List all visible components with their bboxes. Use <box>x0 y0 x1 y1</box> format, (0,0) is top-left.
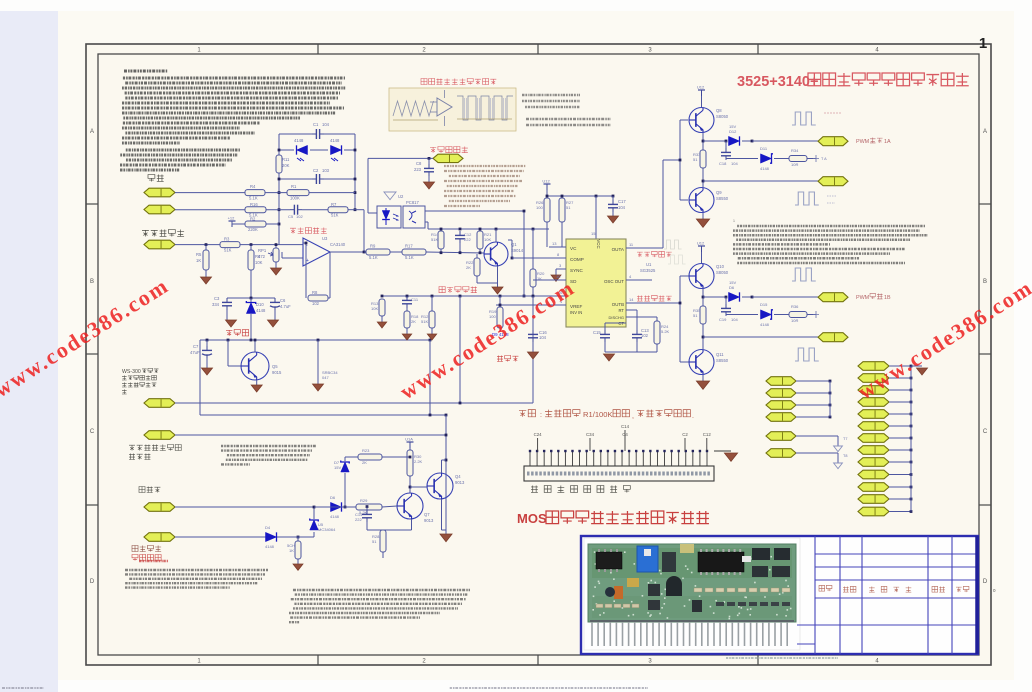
svg-text:D6: D6 <box>729 285 735 290</box>
resistor R6 <box>250 245 252 250</box>
PCB green board <box>588 544 796 622</box>
net label pill <box>766 413 796 422</box>
rail y229 <box>428 228 549 230</box>
net label pill <box>858 434 889 443</box>
svg-text:U12: U12 <box>697 85 705 90</box>
wire bus y415 <box>200 414 446 416</box>
IC pin wires right <box>626 247 663 249</box>
resistor R12 <box>431 296 433 311</box>
net label pill <box>858 398 889 407</box>
net label pill <box>858 446 889 455</box>
svg-text:1: 1 <box>733 219 735 223</box>
svg-text:.: . <box>692 413 694 420</box>
ground R12 <box>427 334 436 340</box>
ground RP1 <box>271 268 282 275</box>
ground Q5 emitter <box>256 380 258 385</box>
potentiometer RP1 <box>273 248 279 262</box>
svg-text:U1: U1 <box>646 262 652 267</box>
ground Q5 <box>251 385 262 392</box>
label output1 red <box>637 251 672 257</box>
svg-text:1B: 1B <box>884 295 891 301</box>
right note text block <box>737 225 925 228</box>
wire row2 <box>175 209 245 211</box>
svg-text:C2: C2 <box>313 168 319 173</box>
svg-text:S8550: S8550 <box>716 358 729 363</box>
net label pill <box>858 458 889 467</box>
wire OSC stub <box>651 279 653 281</box>
svg-text:102: 102 <box>296 214 303 219</box>
svg-text:PWM: PWM <box>856 295 870 301</box>
svg-text:R11: R11 <box>282 157 290 162</box>
diode D2 <box>331 145 342 154</box>
svg-text:20K: 20K <box>282 163 290 168</box>
wire CT/caps bottom <box>604 323 606 330</box>
capacitor <box>312 178 316 180</box>
PCB white label <box>742 556 751 562</box>
diode D14 <box>729 292 740 301</box>
svg-text:Q9: Q9 <box>716 190 722 195</box>
svg-text:R9: R9 <box>370 244 376 249</box>
svg-text:15: 15 <box>591 231 596 236</box>
vcc <box>407 441 414 443</box>
PCB IC2 16-dip <box>698 552 744 572</box>
svg-text:PWM: PWM <box>856 139 870 145</box>
title block right thick edge <box>975 536 979 654</box>
ground R5 <box>201 277 212 284</box>
svg-text:C5: C5 <box>288 214 294 219</box>
resistor R3 <box>220 242 240 248</box>
svg-text:D15: D15 <box>760 302 768 307</box>
PCB transistor cluster <box>662 552 676 572</box>
svg-text:CA3140: CA3140 <box>330 242 346 247</box>
net label pill <box>766 377 796 386</box>
svg-text:4148: 4148 <box>265 544 275 549</box>
waveform symbol <box>664 240 682 249</box>
label feedback/stable <box>142 230 184 237</box>
svg-text:104: 104 <box>618 205 626 210</box>
bottom-left red header <box>139 560 168 562</box>
vcc <box>698 245 705 247</box>
red note cutting machine <box>519 410 535 417</box>
svg-text:A: A <box>983 129 987 135</box>
svg-text:Q4: Q4 <box>455 474 461 479</box>
PCB pin header <box>591 622 593 646</box>
svg-text:C24: C24 <box>534 432 543 437</box>
svg-text:51K: 51K <box>331 213 339 218</box>
svg-text:R34: R34 <box>791 148 799 153</box>
svg-text:OUTA: OUTA <box>612 247 625 252</box>
wire row y507 <box>343 506 356 508</box>
svg-text:222: 222 <box>355 517 362 522</box>
wire IC top pin <box>595 196 597 239</box>
resistor R9 <box>366 249 390 255</box>
PCB IC1 8-dip <box>596 552 622 569</box>
net label pill <box>818 293 848 302</box>
svg-text:51K: 51K <box>224 248 232 253</box>
svg-text:4.7uF: 4.7uF <box>280 304 291 309</box>
svg-text:T8: T8 <box>843 454 847 458</box>
resistor R20 <box>530 269 536 287</box>
wire row1 <box>175 192 245 194</box>
transistor Q8 <box>689 108 714 133</box>
ground gray <box>384 192 396 200</box>
svg-text:SG3525: SG3525 <box>640 268 656 273</box>
ground Q1 emitter <box>492 287 503 294</box>
svg-text:2.2K: 2.2K <box>414 459 423 464</box>
wire opamp out row <box>364 251 366 253</box>
svg-text:R17: R17 <box>405 244 413 249</box>
svg-text:9015: 9015 <box>272 370 282 375</box>
IC U1 SG3525 <box>566 239 626 327</box>
net label pill <box>858 507 889 516</box>
resistor R22 <box>474 258 480 276</box>
svg-text:4148: 4148 <box>760 322 770 327</box>
zener D15 <box>761 310 772 319</box>
net label pill <box>144 240 175 249</box>
diode row pair2 <box>703 296 726 298</box>
svg-text:VC: VC <box>570 246 577 251</box>
svg-text:VCC: VCC <box>596 239 601 248</box>
svg-text:C6: C6 <box>280 298 286 303</box>
wire Q8 emitter node <box>702 133 704 150</box>
resistor RZ <box>295 541 301 559</box>
label given line <box>226 330 249 336</box>
PCB photo white backing <box>584 538 800 650</box>
zener D10 <box>246 303 255 314</box>
opto note text block <box>444 165 526 167</box>
svg-text:S9014: S9014 <box>511 248 524 253</box>
mid pill wires <box>796 380 830 382</box>
label voltage follower <box>290 227 327 233</box>
wire VREF row <box>460 295 566 297</box>
PCB black squares mid <box>648 584 660 596</box>
resistor R35 <box>789 312 807 318</box>
svg-text:D: D <box>90 579 95 585</box>
svg-text:WS-300: WS-300 <box>122 369 141 375</box>
waveform note text right <box>522 94 580 97</box>
ground C17 <box>608 216 619 223</box>
wire Q4 collector <box>441 460 443 473</box>
resistor R26 <box>544 198 550 222</box>
capacitor C3 <box>226 298 228 299</box>
svg-text:102: 102 <box>312 301 320 306</box>
transistor Q5 <box>241 352 269 380</box>
svg-text:D6: D6 <box>330 495 336 500</box>
resistor R23 <box>358 454 382 460</box>
resistor R13 <box>379 299 385 316</box>
PCB dark caps right <box>752 548 770 560</box>
svg-text:DISCHG: DISCHG <box>608 315 624 320</box>
svg-text:U1A: U1A <box>405 437 413 442</box>
diode D12 <box>729 136 740 145</box>
net label pill <box>858 362 889 371</box>
waveform figure title <box>421 78 496 84</box>
wire horizontal y340 <box>200 339 430 341</box>
svg-text:10K: 10K <box>484 237 491 242</box>
PCB pad speckles <box>715 600 717 602</box>
svg-text:9013: 9013 <box>455 480 465 485</box>
label protect <box>139 486 160 492</box>
svg-text:13: 13 <box>552 241 557 246</box>
svg-text:51K: 51K <box>431 237 438 242</box>
capacitor <box>206 346 208 350</box>
bottom-center text block <box>293 589 470 591</box>
svg-text:S8050: S8050 <box>716 270 729 275</box>
net label pill <box>858 470 889 479</box>
net label pill <box>858 422 889 431</box>
svg-text:OUTB: OUTB <box>612 302 624 307</box>
vcc <box>698 89 705 91</box>
title block interior white <box>582 537 976 653</box>
net label pill <box>766 401 796 410</box>
svg-text:R2: R2 <box>250 217 256 222</box>
ground pair1 <box>696 219 709 227</box>
resistor R12 <box>429 311 435 328</box>
svg-text:104: 104 <box>731 161 738 166</box>
ground IC bottom <box>604 354 615 361</box>
svg-text:R29: R29 <box>360 498 368 503</box>
capacitor <box>428 164 430 168</box>
ground M6 <box>834 463 843 469</box>
label amplifier stage <box>439 287 477 293</box>
svg-text:334: 334 <box>212 302 220 307</box>
svg-text:C12: C12 <box>703 432 712 437</box>
wire opto out <box>425 210 524 212</box>
wire Q5 base <box>227 340 229 366</box>
resistor R19 <box>497 307 503 328</box>
svg-text:10K: 10K <box>255 260 263 265</box>
top-left analysis text block <box>123 77 345 80</box>
svg-text:Q8: Q8 <box>716 108 722 113</box>
ground Q4 <box>440 534 452 542</box>
resistor R20 <box>532 229 534 269</box>
svg-text:D11: D11 <box>760 146 768 151</box>
svg-text:C: C <box>90 429 95 435</box>
vcc <box>229 220 236 222</box>
resistor R16 <box>245 207 266 213</box>
svg-text:104: 104 <box>322 122 330 127</box>
svg-text:4148: 4148 <box>330 514 340 519</box>
diode row pair1 <box>703 140 726 142</box>
svg-text:U3: U3 <box>322 236 328 241</box>
net label pill <box>858 483 889 492</box>
svg-text:104: 104 <box>539 335 547 340</box>
svg-text:A: A <box>90 129 94 135</box>
net label pill <box>144 188 175 197</box>
capacitor <box>725 148 727 152</box>
wire x446 drop <box>445 415 447 534</box>
svg-text:C1: C1 <box>313 122 319 127</box>
capacitor <box>459 231 461 235</box>
svg-text:C2: C2 <box>682 432 688 437</box>
capacitor C6 <box>274 298 276 299</box>
svg-text:14: 14 <box>629 297 634 302</box>
svg-text:R4: R4 <box>250 184 256 189</box>
svg-text:S8550: S8550 <box>716 196 729 201</box>
capacitor <box>604 330 606 334</box>
net label pill <box>433 154 463 162</box>
net label pill <box>766 432 796 441</box>
svg-text:4148: 4148 <box>330 138 340 143</box>
net label pill <box>818 137 848 146</box>
svg-text:1: 1 <box>979 35 987 52</box>
top-left paragraph header <box>124 70 168 73</box>
zener D11 <box>761 154 772 163</box>
left lavender margin <box>0 11 58 692</box>
wire Q4 base link <box>410 486 427 488</box>
cap branch pair1 <box>725 141 727 149</box>
svg-text:10R: 10R <box>791 162 798 167</box>
net label pill <box>144 503 175 512</box>
wire Q10 emitter node <box>702 289 704 306</box>
ground Q9 <box>702 213 704 219</box>
wire x460 drop <box>459 296 461 403</box>
svg-text:R8: R8 <box>312 290 318 295</box>
ground right bus <box>917 368 928 375</box>
ground M5 <box>834 446 843 452</box>
svg-text:U12: U12 <box>697 241 705 246</box>
label frequency line red <box>497 355 518 361</box>
waveform symbol <box>792 112 816 125</box>
capacitor <box>406 296 408 300</box>
ground connector <box>724 453 737 461</box>
wire bus y537 <box>175 536 265 538</box>
ground C8 <box>424 182 435 189</box>
resistor R Z1K <box>297 537 299 541</box>
svg-text:2K: 2K <box>466 265 471 270</box>
wire row y537 <box>263 536 291 538</box>
svg-text:5.1K: 5.1K <box>405 255 414 260</box>
ground pair2 <box>696 381 709 389</box>
PCB resistors row <box>694 588 702 592</box>
svg-text:047: 047 <box>322 375 329 380</box>
svg-text:C: C <box>983 429 988 435</box>
svg-text:C8: C8 <box>416 161 422 166</box>
resistor R4 <box>245 190 265 196</box>
transistor Q1 <box>484 242 508 266</box>
svg-text:222: 222 <box>464 237 471 242</box>
comparator symbol <box>437 98 452 116</box>
capacitor <box>532 330 534 334</box>
zener D7 <box>344 457 346 461</box>
svg-text:15V: 15V <box>334 465 341 470</box>
svg-text:C17: C17 <box>618 199 626 204</box>
net label pill <box>144 431 175 440</box>
capacitor C17 <box>612 196 614 200</box>
capacitor C7 <box>206 340 208 347</box>
svg-text:OSC OUT: OSC OUT <box>604 279 624 284</box>
resistor R8 <box>308 295 328 301</box>
resistor R27 <box>559 198 565 222</box>
zener U5 <box>310 520 319 530</box>
svg-text:C14: C14 <box>621 424 630 429</box>
ground Q4 emitter <box>441 499 443 530</box>
wire pill to opto <box>368 157 433 159</box>
label over-current protect <box>132 554 161 560</box>
svg-text:R1: R1 <box>291 184 297 189</box>
net label pill <box>858 410 889 419</box>
label module pins legend <box>531 486 630 493</box>
wire diode row <box>279 149 294 151</box>
ground C7 <box>202 368 213 375</box>
capacitor C14 <box>366 507 368 510</box>
wire OUTA riser <box>662 160 664 248</box>
svg-text:+12: +12 <box>228 216 236 221</box>
resistor R11 <box>276 155 282 173</box>
transistor Q10 <box>689 264 714 289</box>
resistor R28 <box>380 530 386 552</box>
transistor Q9 <box>689 188 714 213</box>
wire COMP link <box>512 257 566 259</box>
PCB trimmer blue <box>637 546 658 572</box>
resistor R2 <box>245 221 266 227</box>
svg-text:SYNC: SYNC <box>570 268 583 273</box>
capacitor C16 <box>532 296 534 330</box>
outer frame <box>86 44 991 665</box>
svg-text:R3: R3 <box>224 237 230 242</box>
svg-text:R7: R7 <box>331 202 337 207</box>
net label pill <box>818 333 848 342</box>
waveform symbol <box>795 192 819 205</box>
net label pill <box>766 389 796 398</box>
svg-text:100K: 100K <box>290 196 300 201</box>
resistor R24 <box>656 317 658 321</box>
bottom-left text block <box>125 569 268 571</box>
svg-text:103: 103 <box>322 168 330 173</box>
diode D4 <box>266 532 277 541</box>
svg-text:9013: 9013 <box>424 518 434 523</box>
label peak current <box>132 545 161 551</box>
IC pin wires left <box>549 246 566 248</box>
svg-text:VREF: VREF <box>570 304 582 309</box>
svg-text:B: B <box>983 279 987 285</box>
transistor Q7 <box>397 493 423 519</box>
svg-text:3525+3140+: 3525+3140+ <box>737 74 818 90</box>
svg-text:,: , <box>632 413 634 420</box>
svg-text:4148: 4148 <box>256 308 266 313</box>
sheet inner tint <box>86 44 991 665</box>
connector pin tall labels <box>537 438 539 451</box>
ground C16 <box>528 352 539 359</box>
right note last line <box>737 262 905 265</box>
svg-text:C18: C18 <box>719 161 727 166</box>
svg-text:5.2K: 5.2K <box>661 329 670 334</box>
wire bus x355 <box>354 134 356 210</box>
zener D7 <box>341 462 350 472</box>
net label pill <box>766 449 796 458</box>
svg-text:C3: C3 <box>214 296 220 301</box>
PCB TO-92 <box>666 576 682 596</box>
svg-text:2K: 2K <box>362 460 367 465</box>
junction minus <box>305 242 308 245</box>
svg-text:C15: C15 <box>593 330 601 335</box>
top-left second paragraph <box>126 149 240 152</box>
ground SYNC <box>551 275 561 281</box>
svg-text:10R: 10R <box>791 318 798 323</box>
svg-text:D: D <box>983 579 988 585</box>
svg-text:10K: 10K <box>371 306 378 311</box>
transistor Q11 <box>689 350 714 375</box>
resistor R22 <box>476 254 478 258</box>
title block outer blue box <box>581 536 978 654</box>
net label pill <box>818 177 848 186</box>
photo caption <box>726 657 838 659</box>
capacitor <box>274 298 276 302</box>
wire zener cluster <box>227 297 275 299</box>
wire opamp plus input <box>282 257 303 259</box>
svg-text:223: 223 <box>414 167 422 172</box>
vcc <box>544 183 551 185</box>
